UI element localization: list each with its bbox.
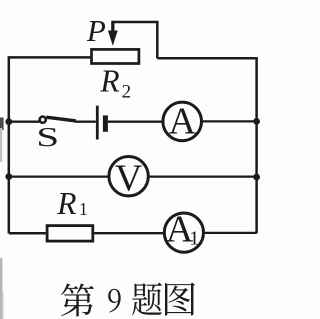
svg-text:S: S (36, 122, 59, 153)
potentiometer wiper arrow (108, 21, 118, 46)
wire wiper to top rail (113, 21, 158, 24)
wire battery to ammeter A (108, 121, 163, 123)
svg-text:R: R (56, 186, 76, 221)
node junction right voltmeter row (253, 174, 260, 181)
svg-text:1: 1 (189, 227, 199, 249)
wire voltmeter row left (9, 175, 109, 177)
svg-text:P: P (86, 13, 106, 48)
svg-text:A: A (168, 100, 196, 142)
wire R1 to ammeter A1 (93, 232, 164, 234)
svg-text:V: V (115, 158, 143, 200)
voltmeter V circle (109, 157, 148, 196)
svg-text:R: R (99, 64, 119, 99)
wire left rail (8, 57, 11, 233)
wire step down (156, 21, 159, 59)
wire switch to battery (75, 121, 96, 123)
switch S contact circle (40, 117, 46, 123)
ammeter A1 circle (164, 213, 203, 252)
wire battery row from left rail to switch (9, 121, 40, 123)
scan artifact marks (0, 118, 4, 319)
wire left rail to R2 left terminal (8, 56, 91, 59)
node junction right battery row (253, 118, 260, 125)
ammeter A circle (163, 102, 202, 141)
wire voltmeter to right rail (148, 175, 256, 177)
wire ammeter A to right rail (202, 120, 257, 122)
caption: 第 9 题图 (61, 282, 195, 316)
resistor R1 body (47, 226, 93, 242)
wire right rail (255, 58, 258, 233)
battery cell positive plate (96, 106, 99, 140)
wire bottom left (9, 232, 46, 235)
battery cell negative plate (103, 115, 108, 131)
node junction left voltmeter row (5, 173, 12, 180)
svg-text:2: 2 (122, 81, 132, 102)
wire top right to rail (157, 57, 257, 60)
potentiometer R2 body (92, 49, 139, 63)
node junction left battery row (5, 118, 12, 125)
wire A1 to right rail (204, 232, 257, 234)
svg-text:1: 1 (79, 199, 88, 219)
switch S lever (46, 117, 76, 121)
